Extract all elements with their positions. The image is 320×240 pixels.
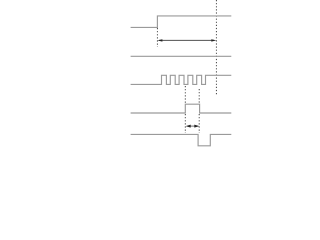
waveform 2 (straight line) [131,55,232,57]
waveform 5 (negative pulse) [131,134,232,145]
waveform 1 (top signal with rising step) [131,16,232,28]
waveform 4 (single positive pulse) [131,104,232,113]
dotted vertical reference line x=216.4 [215,0,217,95]
waveform 3 (clock burst) [131,75,232,84]
dotted extension line x=199.5 [198,89,200,104]
dotted extension line x=185.3 [184,86,186,104]
dimension arrow (top, double-headed) [157,39,216,41]
dimension arrow (small, double-headed) [186,125,200,128]
dotted extension line at rising edge x=157.4 [156,28,158,47]
